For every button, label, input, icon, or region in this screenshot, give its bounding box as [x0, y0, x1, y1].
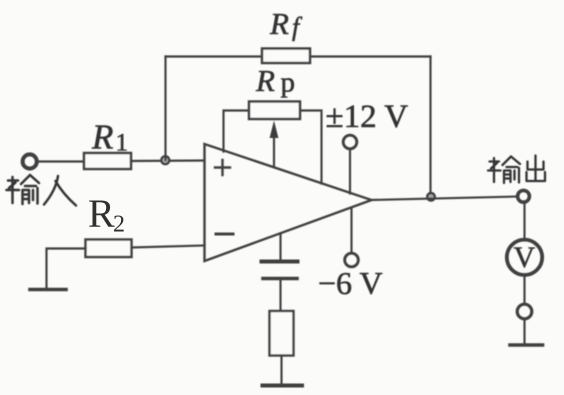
label 输入 (input): [7, 175, 77, 206]
resistor Rp leads: [224, 111, 322, 184]
svg-text:1: 1: [116, 130, 129, 157]
capacitor C1 top plate: [262, 260, 298, 264]
wire input to R1: [37, 160, 84, 162]
入 char: [44, 176, 76, 206]
输 char: 月 box: [23, 190, 30, 204]
label R1: [91, 118, 128, 157]
wire R1 to op-amp + input: [131, 159, 205, 162]
resistor R2: [86, 240, 132, 258]
ground (left): [30, 288, 66, 292]
输 char: 俞 roof: [21, 175, 39, 186]
terminal circle ±12V: [343, 135, 357, 149]
svg-text:p: p: [281, 67, 296, 99]
wire op-amp to capacitor: [279, 234, 281, 260]
wire voltmeter to terminal: [523, 276, 525, 304]
wire: feedback right vertical: [429, 57, 431, 197]
svg-text:f: f: [292, 12, 303, 41]
wire op-amp output: [372, 197, 518, 201]
label 输出 (output): [488, 156, 545, 184]
node A junction dot: [161, 156, 169, 164]
output terminal circle: [518, 190, 530, 202]
svg-text:±12 V: ±12 V: [326, 99, 409, 135]
ground (middle): [263, 384, 303, 388]
op-amp - input symbol: [216, 233, 233, 236]
wire terminal to ground: [523, 320, 525, 344]
输 char: 月 box: [504, 171, 511, 184]
输 char: 刂: [33, 188, 38, 204]
svg-text:R: R: [269, 6, 289, 41]
capacitor C1 bottom plate: [263, 277, 297, 281]
label Rf: [269, 6, 303, 41]
svg-text:−6 V: −6 V: [318, 265, 383, 301]
输 char: radical 车: [7, 177, 20, 203]
resistor Rp (potentiometer): [249, 102, 300, 120]
op-amp + input symbol: [215, 160, 230, 175]
wire capacitor to resistor: [279, 281, 281, 312]
ground (right): [510, 343, 543, 347]
svg-text:R: R: [88, 191, 115, 236]
terminal circle below voltmeter: [517, 304, 532, 319]
wire R2 to op-amp - input: [132, 246, 205, 248]
svg-text:V: V: [514, 241, 536, 274]
voltmeter V circle: [507, 240, 542, 275]
input terminal (输入) circle: [23, 154, 37, 168]
op-amp U1 triangle: [205, 144, 372, 261]
出 char: [527, 156, 546, 182]
label ±12 V: [326, 99, 409, 135]
node B junction dot: [427, 193, 435, 201]
svg-text:R: R: [255, 63, 275, 98]
label -6 V: [318, 265, 383, 301]
terminal circle -6V: [345, 253, 359, 267]
wire: feedback top horizontal: [166, 55, 431, 57]
Rp wiper arrow: [273, 136, 275, 167]
wire: feedback left vertical: [164, 57, 166, 161]
svg-text:R: R: [91, 118, 113, 157]
label Rp: [255, 63, 295, 99]
wire -6V supply to op-amp: [350, 208, 352, 252]
wire +12V supply to op-amp: [349, 150, 351, 194]
resistor R1: [84, 153, 131, 169]
wire output to voltmeter: [523, 204, 525, 240]
resistor Rf: [262, 49, 310, 64]
resistor R3 (vertical): [270, 311, 294, 356]
输 char: 俞 roof: [503, 157, 521, 168]
label R2: [88, 191, 125, 238]
输 char: radical 车: [488, 158, 501, 182]
voltmeter V letter: [514, 241, 536, 274]
svg-text:2: 2: [113, 212, 125, 238]
输 char: 刂: [515, 168, 520, 183]
wire R2 left lead to ground: [47, 249, 86, 289]
wire resistor to ground: [280, 356, 282, 384]
